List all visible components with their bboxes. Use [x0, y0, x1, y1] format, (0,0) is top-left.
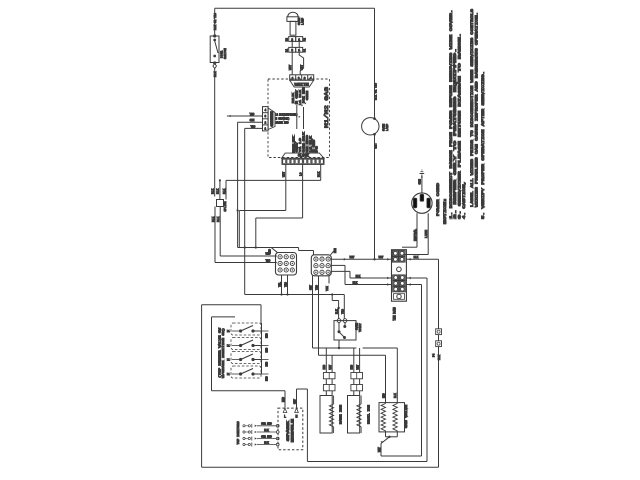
wire rail A (L1 feed) [313, 347, 357, 349]
svg-text:RED: RED [265, 333, 268, 338]
wire P6 right pin row1 WHT to terminal board [331, 256, 391, 261]
connector P4 inline disconnect pair [433, 329, 442, 360]
switch top burner switch SW3 [227, 352, 269, 367]
electrode top igniter 1 [243, 423, 279, 428]
svg-text:2. REFER ONLY TO FEATURES EQUI: 2. REFER ONLY TO FEATURES EQUIPPED. [454, 48, 458, 219]
svg-text:TSTAT: TSTAT [359, 323, 362, 332]
svg-text:STR RED: STR RED [261, 423, 272, 426]
svg-text:LAMP: LAMP [386, 124, 389, 131]
svg-text:1: 1 [292, 77, 294, 80]
plug power cord [412, 182, 441, 216]
svg-text:Y10: Y10 [341, 309, 344, 314]
svg-text:P4: P4 [433, 353, 436, 357]
wire BLK return vertical V_D [438, 259, 440, 329]
svg-text:P3: P3 [315, 146, 318, 152]
svg-text:CLOCK: CLOCK [298, 153, 309, 157]
wire CLOCK pin BLK drop [318, 164, 321, 180]
svg-text:1. DISCONNECT RANGE FROM POWER: 1. DISCONNECT RANGE FROM POWER BEFORE RE… [450, 10, 454, 220]
svg-text:RED: RED [265, 347, 268, 352]
wire into P5 row1 arrow WHT [220, 253, 277, 258]
wire top horizontal bus L1 [215, 7, 375, 9]
lamp oven cavity lamp B2 [362, 8, 389, 135]
svg-text:WHT: WHT [301, 65, 304, 70]
svg-text:3: 3 [304, 77, 306, 80]
svg-text:GREEN: GREEN [270, 111, 274, 126]
svg-text:5. VERIFY PROPER OPERATION AFT: 5. VERIFY PROPER OPERATION AFTER SERVICI… [482, 71, 486, 219]
svg-text:Y10: Y10 [284, 282, 287, 287]
svg-text:MODULE: MODULE [292, 419, 296, 442]
terminal board TB1 [392, 250, 407, 321]
wire P6 right pin row3 to terminal board [331, 271, 391, 279]
svg-text:BLK: BLK [217, 189, 220, 194]
note service NOTICE text block [444, 8, 486, 224]
svg-text:N GRY(DSI): N GRY(DSI) [276, 118, 290, 121]
wire horizontal mid run [238, 246, 299, 248]
wire into P5 row2 arrow Y10 [215, 259, 277, 264]
wire thermostat left lead BLK [332, 301, 340, 319]
svg-text:RED: RED [351, 364, 354, 369]
wire CLOCK pin LO drop [299, 164, 302, 218]
svg-text:BLK: BLK [264, 429, 269, 432]
wire terminal board to BLK return (right), with arrow [406, 256, 438, 261]
svg-text:TOP IGNITORS: TOP IGNITORS [236, 421, 240, 444]
terminal L of spark module [283, 408, 287, 419]
svg-text:WHT: WHT [350, 256, 355, 259]
svg-text:WHT: WHT [329, 364, 332, 369]
svg-text:NOTICE:: NOTICE: [444, 198, 448, 224]
svg-text:SWITCH: SWITCH [224, 48, 227, 59]
wire P6 pin stub [326, 276, 329, 291]
wire splice output BLK pair [212, 207, 220, 263]
wire gas valve common return WHT [378, 436, 398, 456]
wire P5 bottom pins down [278, 275, 287, 295]
svg-text:LAMP: LAMP [302, 18, 305, 25]
svg-text:BLK: BLK [217, 217, 220, 222]
wire WHT jog (clock to riser) [239, 211, 285, 248]
wire BLK run clock to splice [219, 179, 321, 199]
wire mid run to connector P5 top [299, 248, 314, 255]
wire terminal board mid return V_B [406, 277, 427, 462]
svg-text:SPLICE: SPLICE [224, 201, 227, 211]
svg-text:P1: P1 [303, 49, 306, 53]
svg-text:R1: R1 [285, 49, 288, 53]
svg-text:BROIL IGN: BROIL IGN [368, 405, 371, 424]
svg-text:M1/M2 GAS: M1/M2 GAS [323, 86, 330, 128]
wire neutral rail 1 [381, 455, 422, 457]
terminal N of spark module [295, 408, 299, 419]
svg-text:BLK: BLK [318, 172, 321, 177]
wire power cord ground GRN [419, 170, 425, 193]
svg-text:3. SERVICER PLEASE RETURN DIAG: 3. SERVICER PLEASE RETURN DIAGRAM TO RAN… [459, 33, 463, 219]
svg-text:1: 1 [298, 38, 300, 41]
connector P2 lamp disconnect [285, 37, 306, 42]
svg-text:WHITE: WHITE [295, 84, 309, 88]
svg-text:RED: RED [282, 397, 285, 402]
wire riser Y10 from GREEN pin4 [244, 128, 246, 294]
svg-text:1: 1 [298, 49, 300, 52]
svg-text:4: 4 [310, 77, 312, 80]
svg-text:Y10: Y10 [250, 113, 255, 116]
svg-text:BAKE IGN: BAKE IGN [340, 405, 343, 424]
svg-text:WHT: WHT [378, 447, 381, 452]
connector CLOCK with cell strip [282, 153, 325, 164]
connector WHITE J-white with pins 1-4 [290, 75, 314, 88]
wire spark module L feed [212, 391, 286, 408]
wire switch common bus [260, 323, 263, 374]
svg-text:WHT: WHT [375, 143, 378, 149]
wire thermostat to rail [338, 340, 340, 349]
enclosure M1/M2 GAS control box (dashed) [268, 79, 330, 158]
electrode top igniter 2 [243, 429, 279, 434]
connector P6 3x3 plug (right) [311, 248, 337, 276]
svg-text:BLK OR Y10: BLK OR Y10 [214, 13, 217, 30]
enclosure inner wall [212, 317, 236, 391]
wire door switch to splice, label BLK [213, 64, 217, 197]
wire diagonal RED into P5 [269, 248, 278, 255]
svg-text:RED: RED [269, 249, 272, 254]
label top burner switches [217, 328, 225, 378]
svg-text:RED: RED [265, 376, 268, 381]
thermostat oven t-stat S2 [334, 319, 362, 340]
svg-text:2: 2 [291, 38, 293, 41]
svg-text:BLK: BLK [264, 441, 269, 444]
wire BLK return to bottom rail [438, 347, 440, 468]
igniter broil igniter E2 [348, 348, 371, 433]
electrode top igniter 3 [243, 435, 279, 440]
connector P5 3x3 plug (left) [276, 253, 297, 276]
label top ignitors [236, 421, 240, 444]
spark module dashed box [278, 408, 303, 450]
svg-text:WHT: WHT [379, 256, 384, 259]
svg-text:LINE: LINE [425, 230, 428, 238]
svg-text:RED: RED [382, 393, 385, 398]
svg-text:BLK: BLK [356, 275, 361, 278]
svg-text:LABEL ALL WIRES PRIOR TO DISCO: LABEL ALL WIRES PRIOR TO DISCONNECTION W… [471, 8, 475, 207]
svg-text:GRN: GRN [419, 179, 422, 185]
svg-text:Y10: Y10 [266, 259, 271, 262]
switch door/light switch S1 [210, 35, 227, 64]
svg-text:Y10: Y10 [251, 125, 256, 128]
wire CLOCK pin WHT drop [283, 164, 286, 210]
svg-text:BLK: BLK [353, 281, 358, 284]
wire rail C [319, 354, 386, 356]
electrode top igniter 4 [243, 441, 279, 446]
wire from top bus to door switch, label BLK OR Y10 [214, 8, 217, 36]
svg-text:SPARK RED: SPARK RED [276, 122, 290, 125]
svg-text:WIRING PROBLEMS CAN CAUSE IMPR: WIRING PROBLEMS CAN CAUSE IMPROPER AND D… [476, 12, 480, 207]
lamp oven light bulb B1 [287, 12, 305, 35]
svg-text:BRN: BRN [334, 248, 337, 253]
wire riser GRN from GREEN pin3 [237, 122, 239, 247]
wire neutral rail 2 [307, 461, 427, 463]
svg-text:BLK: BLK [414, 256, 419, 259]
svg-text:STR RED: STR RED [261, 435, 272, 438]
svg-text:BLK: BLK [212, 217, 215, 222]
svg-text:RED: RED [323, 364, 326, 369]
label WHITE connector pin functions [292, 87, 309, 107]
svg-text:2: 2 [291, 49, 293, 52]
svg-text:2: 2 [298, 77, 300, 80]
wire P6 pin to rail A (left) [309, 276, 312, 348]
svg-text:YEL: YEL [278, 282, 281, 287]
wire GREEN pin2 lead, label Y10 [227, 113, 263, 117]
svg-text:L: L [284, 416, 286, 420]
igniter bake igniter E1 [320, 348, 343, 433]
wire LO jog (clock to riser) [256, 218, 303, 248]
switch top burner switch SW1 [227, 323, 269, 338]
svg-text:WHT: WHT [283, 172, 286, 177]
wire power cord LINE to terminal board [404, 213, 428, 254]
wire bottom BLK rail [202, 466, 439, 468]
connector P1 lamp harness [285, 41, 306, 52]
svg-text:GRY: GRY [293, 399, 296, 404]
wire spark module N feed [293, 389, 307, 462]
label CLOCK pin functions [292, 132, 318, 152]
svg-text:L1 BLK(BAKE/BROIL): L1 BLK(BAKE/BROIL) [276, 114, 298, 117]
switch top burner switch SW2 [227, 338, 269, 353]
switch top burner switch SW4 [227, 366, 269, 381]
svg-text:Y1K: Y1K [326, 286, 329, 291]
wire lamp B2 to terminal board, label WHT [375, 134, 378, 259]
svg-text:GAS VALVE: GAS VALVE [405, 405, 408, 428]
svg-text:BLK: BLK [223, 189, 226, 194]
enclosure burner box (left/top/bottom edges) [202, 305, 261, 468]
svg-text:BLK: BLK [394, 393, 397, 398]
wire lamp WHT leads to WHITE connector [289, 52, 304, 75]
wire power cord NEUTRAL to terminal board [402, 213, 417, 247]
label thermostat right lead Y10 [341, 309, 344, 314]
svg-text:BLK: BLK [214, 71, 217, 77]
wire GREEN pin3 to vertical riser, label GRN [238, 119, 263, 122]
wire P6 pin to rail C [315, 276, 318, 356]
wire WHITE pins into clock labels [297, 105, 304, 129]
connector GREEN 4-pin [263, 107, 276, 131]
svg-text:WHT: WHT [356, 364, 359, 369]
svg-text:WHT: WHT [289, 65, 292, 70]
svg-text:BLK OR Y10: BLK OR Y10 [375, 83, 378, 100]
solenoid gas valve V1 (dual coil) [379, 348, 408, 437]
svg-text:LO: LO [299, 172, 302, 176]
svg-text:Y10: Y10 [315, 285, 318, 290]
svg-text:R2: R2 [285, 38, 288, 42]
svg-text:4. CAUTION,: 4. CAUTION, [463, 181, 467, 219]
svg-text:POWER CORD: POWER CORD [437, 182, 441, 216]
wire rail B [363, 347, 398, 349]
svg-text:W/SPARK IGNITION SW): W/SPARK IGNITION SW) [221, 328, 225, 378]
wire terminal board low return V_A [406, 283, 421, 456]
svg-text:BLK: BLK [212, 189, 215, 194]
svg-text:GRY: GRY [309, 285, 312, 290]
svg-text:GRN: GRN [250, 119, 255, 122]
wire P6 right pin row2 to terminal board [331, 265, 391, 285]
svg-text:N: N [295, 416, 297, 420]
wire mid horizontal run to thermostat [245, 293, 345, 318]
wire GREEN pin4 to vertical riser, label Y10 [245, 125, 263, 128]
svg-text:ORN: ORN [306, 90, 309, 100]
svg-text:RED: RED [265, 361, 268, 366]
label BLK wires above splice [212, 189, 226, 194]
svg-text:NEUTRAL: NEUTRAL [414, 229, 417, 241]
svg-text:BLK: BLK [335, 309, 338, 314]
svg-text:TERM BOARD: TERM BOARD [393, 307, 397, 321]
label GREEN pin functions [276, 114, 301, 125]
splice junction box [217, 200, 227, 212]
svg-text:SPARK: SPARK [287, 419, 291, 441]
svg-text:P2: P2 [303, 38, 306, 42]
